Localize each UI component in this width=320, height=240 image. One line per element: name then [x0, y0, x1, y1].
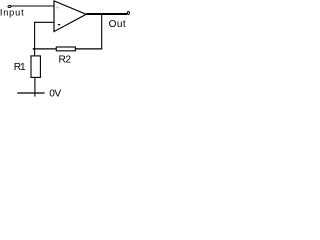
svg-text:Out: Out	[109, 19, 127, 30]
svg-text:0V: 0V	[49, 89, 61, 98]
svg-text:R1: R1	[14, 62, 26, 73]
svg-text:Input: Input	[0, 7, 24, 17]
svg-text:R2: R2	[59, 55, 72, 66]
